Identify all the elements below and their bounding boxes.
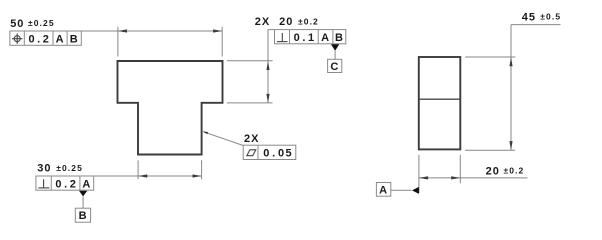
svg-text:1: 1 xyxy=(308,32,314,44)
right arrowhead of 50 dim xyxy=(213,29,222,32)
svg-text:.: . xyxy=(64,178,67,190)
down arrowhead of 45 dim xyxy=(509,141,512,150)
svg-text:B: B xyxy=(79,210,88,222)
dimension text 2X 20 ±0.2 xyxy=(255,16,319,28)
svg-text:A: A xyxy=(379,185,388,197)
feature control frame FCF4: flatness 0.05 xyxy=(243,145,296,159)
svg-text:0: 0 xyxy=(278,147,284,159)
down arrowhead of 20 dim xyxy=(266,94,269,103)
front view: T-shaped part outline xyxy=(118,61,223,155)
left extension line of side 20 dim xyxy=(418,155,420,193)
FCF1 value 0.2 xyxy=(28,33,48,45)
dimension text 20 ±0.2 (side view width) xyxy=(486,165,525,177)
svg-text:0: 0 xyxy=(28,33,34,45)
svg-text:±0.25: ±0.25 xyxy=(28,18,55,28)
svg-text:2: 2 xyxy=(70,178,76,190)
side view: flange/stem edge line xyxy=(419,98,461,100)
FCF2 value 0.1 xyxy=(294,32,314,44)
svg-text:0: 0 xyxy=(294,32,300,44)
svg-text:B: B xyxy=(335,32,344,44)
FCF4 value 0.05 xyxy=(263,147,291,159)
svg-text:.: . xyxy=(302,32,305,44)
top extension line of 20 dim xyxy=(227,60,273,62)
datum B triangle (filled, pointing up at FCF3) xyxy=(79,191,87,197)
svg-text:A: A xyxy=(321,32,330,44)
svg-text:±0.2: ±0.2 xyxy=(298,17,319,27)
dimension text 45 ±0.5 xyxy=(522,12,561,24)
svg-text:.: . xyxy=(272,147,275,159)
dimension text 50 ±0.25 xyxy=(10,18,55,30)
left extension line of 30 dim xyxy=(137,160,139,179)
svg-text:50: 50 xyxy=(10,18,24,30)
horizontal leader of 45 dim xyxy=(511,24,561,26)
svg-text:B: B xyxy=(70,33,79,45)
FCF3 value 0.2 xyxy=(55,178,75,190)
feature control frame FCF3: perpendicularity 0.2 A xyxy=(36,176,94,190)
svg-text:±0.25: ±0.25 xyxy=(56,163,83,173)
vertical dimension line for 45 xyxy=(510,25,512,151)
leader arrowhead touching stem right edge xyxy=(202,131,208,134)
svg-text:20: 20 xyxy=(486,165,500,177)
right extension line of 30 dim xyxy=(201,160,203,179)
side view: part outline xyxy=(419,57,461,149)
right extension line of 50 dim xyxy=(221,27,223,57)
svg-text:30: 30 xyxy=(37,163,51,175)
svg-text:2X: 2X xyxy=(255,16,270,28)
up arrowhead of 45 dim xyxy=(509,57,512,66)
datum B leader line xyxy=(82,196,84,208)
svg-text:.: . xyxy=(37,33,40,45)
left extension line of 50 dim xyxy=(117,27,119,57)
top extension line of 45 dim xyxy=(465,56,515,58)
feature control frame FCF2: perpendicularity 0.1 A B xyxy=(275,30,346,44)
leader from FCF2 to vertical dimension line xyxy=(268,29,275,31)
svg-text:2: 2 xyxy=(43,33,49,45)
perpendicularity symbol in FCF3 xyxy=(38,179,49,188)
svg-text:0: 0 xyxy=(55,178,61,190)
datum A triangle (filled, pointing right at side view edge) xyxy=(412,187,419,194)
bottom extension line of 45 dim xyxy=(465,149,515,151)
svg-text:A: A xyxy=(82,178,91,190)
svg-text:0: 0 xyxy=(263,147,269,159)
position symbol (circle + crosshair) xyxy=(12,34,22,44)
dimension line for 30 (from FCF3 to right extension) xyxy=(94,175,202,177)
left arrowhead of side 20 dim xyxy=(419,176,428,179)
datum A box xyxy=(376,183,390,197)
left arrowhead of 50 dim xyxy=(118,29,127,32)
svg-text:±0.2: ±0.2 xyxy=(504,165,525,175)
datum C triangle (filled, pointing up at FCF2) xyxy=(331,44,339,51)
datum B box xyxy=(75,208,90,222)
leader from stem edge to flatness frame xyxy=(204,132,244,146)
datum A leader line xyxy=(391,189,412,191)
datum C leader line xyxy=(334,51,336,60)
flatness symbol (parallelogram) xyxy=(247,150,256,156)
perpendicularity symbol in FCF2 xyxy=(277,33,288,42)
left arrowhead of 30 dim xyxy=(138,174,147,177)
up arrowhead of 20 dim xyxy=(266,61,269,70)
dimension line for 50 (from FCF1 to right extension) xyxy=(81,30,222,32)
dimension text 30 ±0.25 xyxy=(37,163,83,175)
bottom extension line of 20 dim xyxy=(227,102,273,104)
vertical dimension line for 20 (flange height) xyxy=(267,30,269,103)
svg-text:A: A xyxy=(56,33,65,45)
right arrowhead of side 20 dim xyxy=(451,176,460,179)
svg-text:5: 5 xyxy=(285,147,291,159)
svg-text:2X: 2X xyxy=(244,133,259,145)
right arrowhead of 30 dim xyxy=(193,174,202,177)
right extension line of side 20 dim xyxy=(459,155,461,184)
svg-text:±0.5: ±0.5 xyxy=(540,12,561,22)
dimension line for side 20 xyxy=(419,177,528,179)
svg-text:45: 45 xyxy=(522,12,536,24)
feature control frame FCF1: position 0.2 A B xyxy=(10,31,81,45)
svg-text:20: 20 xyxy=(279,16,293,28)
datum C box xyxy=(328,59,342,72)
svg-text:C: C xyxy=(330,61,339,73)
